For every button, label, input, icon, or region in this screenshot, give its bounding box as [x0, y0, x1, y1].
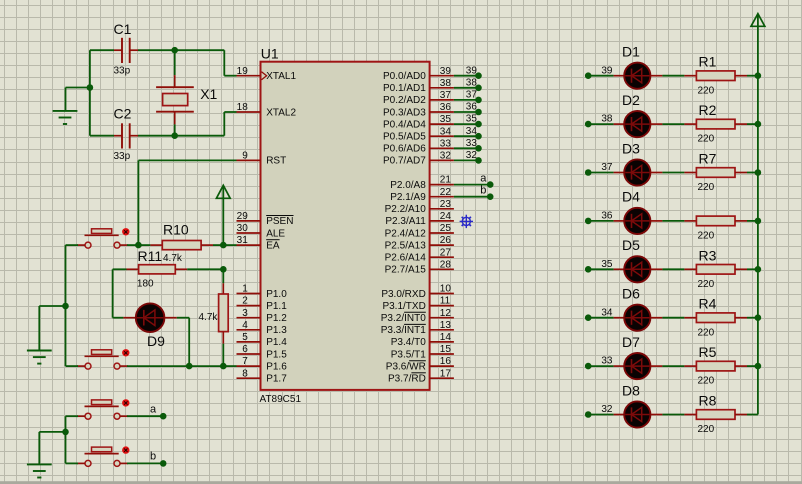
- svg-text:R1: R1: [699, 54, 717, 70]
- svg-text:13: 13: [440, 320, 452, 331]
- svg-text:220: 220: [698, 424, 715, 435]
- svg-text:P1.5: P1.5: [266, 349, 287, 360]
- svg-text:ALE: ALE: [266, 228, 285, 239]
- svg-text:4.7k: 4.7k: [198, 312, 218, 323]
- svg-text:24: 24: [440, 211, 452, 222]
- svg-text:XTAL2: XTAL2: [266, 107, 296, 118]
- svg-text:RST: RST: [266, 156, 286, 167]
- svg-text:37: 37: [601, 162, 613, 173]
- svg-text:220: 220: [698, 327, 715, 338]
- svg-text:a: a: [150, 403, 157, 415]
- svg-text:32: 32: [440, 151, 452, 162]
- svg-text:39: 39: [440, 66, 452, 77]
- svg-text:P1.3: P1.3: [266, 325, 287, 336]
- svg-text:P2.7/A15: P2.7/A15: [385, 265, 427, 276]
- svg-text:C1: C1: [114, 21, 132, 37]
- svg-text:P3.5/T1: P3.5/T1: [391, 349, 426, 360]
- svg-text:P0.2/AD2: P0.2/AD2: [383, 95, 426, 106]
- svg-text:8: 8: [242, 368, 248, 379]
- svg-text:P2.6/A14: P2.6/A14: [385, 253, 427, 264]
- svg-text:R5: R5: [699, 344, 717, 360]
- svg-text:15: 15: [440, 344, 452, 355]
- svg-text:XTAL1: XTAL1: [266, 71, 296, 82]
- svg-text:U1: U1: [261, 46, 279, 62]
- svg-text:R7: R7: [699, 151, 717, 167]
- svg-text:R10: R10: [163, 221, 189, 237]
- svg-text:P1.1: P1.1: [266, 301, 287, 312]
- svg-text:P3.1/TXD: P3.1/TXD: [382, 301, 425, 312]
- svg-text:23: 23: [440, 199, 452, 210]
- svg-text:33: 33: [440, 138, 452, 149]
- svg-text:3: 3: [242, 308, 248, 319]
- svg-text:38: 38: [601, 114, 613, 125]
- svg-text:33p: 33p: [114, 66, 131, 77]
- svg-text:32: 32: [466, 150, 478, 161]
- svg-text:220: 220: [698, 85, 715, 96]
- svg-text:37: 37: [440, 90, 452, 101]
- svg-text:19: 19: [237, 66, 249, 77]
- svg-text:36: 36: [466, 102, 478, 113]
- svg-text:P3.7/RD: P3.7/RD: [388, 374, 426, 385]
- svg-text:D1: D1: [622, 44, 640, 60]
- svg-text:D8: D8: [622, 382, 640, 398]
- svg-text:P0.0/AD0: P0.0/AD0: [383, 71, 426, 82]
- svg-text:P2.0/A8: P2.0/A8: [390, 180, 426, 191]
- svg-text:38: 38: [466, 77, 478, 88]
- svg-text:14: 14: [440, 332, 452, 343]
- svg-text:18: 18: [237, 102, 249, 113]
- svg-text:D2: D2: [622, 92, 640, 108]
- svg-text:37: 37: [466, 90, 478, 101]
- svg-text:26: 26: [440, 235, 452, 246]
- svg-text:P3.6/WR: P3.6/WR: [386, 361, 426, 372]
- svg-text:33: 33: [466, 138, 478, 149]
- svg-text:PSEN: PSEN: [266, 216, 293, 227]
- svg-text:220: 220: [698, 134, 715, 145]
- svg-text:12: 12: [440, 308, 452, 319]
- svg-text:34: 34: [466, 126, 478, 137]
- svg-text:P0.5/AD5: P0.5/AD5: [383, 132, 426, 143]
- svg-text:11: 11: [440, 296, 451, 307]
- svg-text:P3.4/T0: P3.4/T0: [391, 337, 426, 348]
- svg-text:P0.6/AD6: P0.6/AD6: [383, 144, 426, 155]
- svg-text:17: 17: [440, 368, 452, 379]
- svg-text:36: 36: [440, 102, 452, 113]
- svg-text:b: b: [150, 451, 156, 463]
- svg-text:27: 27: [440, 247, 452, 258]
- svg-text:4: 4: [242, 320, 248, 331]
- svg-text:38: 38: [440, 78, 452, 89]
- svg-text:22: 22: [440, 187, 452, 198]
- svg-text:220: 220: [698, 376, 715, 387]
- svg-text:36: 36: [601, 211, 613, 222]
- svg-text:P3.2/INT0: P3.2/INT0: [381, 313, 426, 324]
- svg-text:34: 34: [601, 307, 613, 318]
- svg-text:C2: C2: [114, 106, 132, 122]
- svg-text:39: 39: [601, 65, 613, 76]
- svg-text:34: 34: [440, 126, 452, 137]
- svg-text:4.7k: 4.7k: [163, 253, 183, 264]
- svg-text:10: 10: [440, 284, 452, 295]
- svg-text:P0.1/AD1: P0.1/AD1: [383, 83, 426, 94]
- svg-text:P1.4: P1.4: [266, 337, 287, 348]
- svg-text:28: 28: [440, 259, 452, 270]
- svg-text:P1.7: P1.7: [266, 374, 287, 385]
- svg-text:P1.2: P1.2: [266, 313, 287, 324]
- svg-text:35: 35: [466, 114, 478, 125]
- svg-text:D6: D6: [622, 286, 640, 302]
- svg-text:P2.2/A10: P2.2/A10: [385, 204, 427, 215]
- svg-text:9: 9: [242, 151, 248, 162]
- svg-text:P0.7/AD7: P0.7/AD7: [383, 156, 426, 167]
- svg-text:21: 21: [440, 175, 452, 186]
- svg-text:25: 25: [440, 223, 452, 234]
- svg-text:D4: D4: [622, 189, 640, 205]
- svg-text:180: 180: [137, 279, 154, 290]
- svg-text:220: 220: [698, 231, 715, 242]
- svg-text:220: 220: [698, 182, 715, 193]
- svg-text:30: 30: [237, 223, 249, 234]
- svg-text:39: 39: [466, 65, 478, 76]
- svg-text:7: 7: [242, 356, 248, 367]
- svg-text:35: 35: [440, 114, 452, 125]
- svg-text:31: 31: [237, 235, 249, 246]
- svg-text:P3.0/RXD: P3.0/RXD: [381, 289, 425, 300]
- svg-text:P2.4/A12: P2.4/A12: [385, 228, 427, 239]
- svg-text:33p: 33p: [114, 151, 131, 162]
- svg-text:R2: R2: [699, 102, 717, 118]
- svg-text:D9: D9: [147, 333, 165, 349]
- svg-text:1: 1: [242, 284, 248, 295]
- svg-text:P0.3/AD3: P0.3/AD3: [383, 107, 426, 118]
- svg-text:D5: D5: [622, 237, 640, 253]
- svg-text:35: 35: [601, 259, 613, 270]
- svg-text:D3: D3: [622, 140, 640, 156]
- svg-text:b: b: [480, 185, 486, 197]
- svg-text:R4: R4: [699, 296, 717, 312]
- svg-text:R8: R8: [699, 393, 717, 409]
- svg-text:P1.0: P1.0: [266, 289, 287, 300]
- svg-text:6: 6: [242, 344, 248, 355]
- svg-text:33: 33: [601, 356, 613, 367]
- svg-text:29: 29: [237, 211, 249, 222]
- svg-text:P3.3/INT1: P3.3/INT1: [381, 325, 426, 336]
- svg-text:P0.4/AD4: P0.4/AD4: [383, 119, 426, 130]
- svg-text:P1.6: P1.6: [266, 361, 287, 372]
- svg-text:220: 220: [698, 279, 715, 290]
- svg-text:5: 5: [242, 332, 248, 343]
- svg-text:R3: R3: [699, 247, 717, 263]
- svg-text:16: 16: [440, 356, 452, 367]
- svg-text:P2.3/A11: P2.3/A11: [385, 216, 426, 227]
- svg-text:EA: EA: [266, 240, 280, 251]
- svg-text:X1: X1: [200, 86, 217, 102]
- svg-text:D7: D7: [622, 334, 640, 350]
- svg-text:P2.1/A9: P2.1/A9: [390, 192, 426, 203]
- svg-text:P2.5/A13: P2.5/A13: [385, 240, 427, 251]
- svg-text:R11: R11: [138, 248, 163, 264]
- svg-text:AT89C51: AT89C51: [260, 394, 302, 405]
- svg-text:32: 32: [601, 404, 613, 415]
- svg-text:a: a: [480, 173, 487, 185]
- svg-text:2: 2: [242, 296, 248, 307]
